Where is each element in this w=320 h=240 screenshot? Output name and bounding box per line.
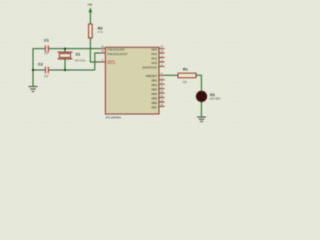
pins 6-13 RB stubs bbox=[159, 75, 165, 106]
wire R1 to LED anode bbox=[196, 75, 201, 91]
pin numbers 17,18,1,2,3 bbox=[160, 46, 163, 67]
svg-text:R2: R2 bbox=[98, 25, 103, 30]
pin label MCLR with overbar bbox=[107, 61, 115, 65]
svg-text:D1: D1 bbox=[210, 92, 216, 97]
wire crystal bottom pin bbox=[63, 59, 67, 70]
svg-text:OSC2/CLKOUT: OSC2/CLKOUT bbox=[107, 52, 127, 56]
svg-text:RB1: RB1 bbox=[151, 79, 157, 83]
svg-text:PIC16F84A: PIC16F84A bbox=[106, 116, 122, 120]
capacitor C1 bbox=[45, 45, 48, 52]
junction node crystal top on OSC1 rail bbox=[64, 48, 66, 50]
svg-text:CRYSTAL: CRYSTAL bbox=[75, 60, 87, 63]
pin 15 OSC2 stub bbox=[100, 51, 106, 55]
ground right bbox=[197, 117, 206, 122]
svg-text:RA2: RA2 bbox=[151, 56, 157, 60]
svg-text:OSC1/CLKIN: OSC1/CLKIN bbox=[107, 47, 124, 51]
svg-text:C1: C1 bbox=[44, 38, 50, 43]
LED D1 bbox=[196, 91, 207, 102]
svg-text:LED-RED: LED-RED bbox=[210, 97, 221, 100]
capacitor C2 bbox=[45, 67, 48, 74]
pin labels RA0-RA4/T0CKI bbox=[143, 47, 158, 69]
pin 4 MCLR stub bbox=[100, 60, 106, 64]
junction node left rail to ground bbox=[32, 69, 34, 71]
svg-text:R1: R1 bbox=[183, 68, 188, 72]
svg-text:RA1: RA1 bbox=[151, 52, 157, 56]
svg-text:RA3: RA3 bbox=[151, 61, 157, 65]
pin labels RB0/INT-RB7 bbox=[146, 74, 157, 109]
ground left bbox=[29, 87, 38, 92]
power +5v arrow symbol bbox=[89, 8, 92, 12]
wire left vertical to ground bbox=[31, 70, 35, 86]
svg-text:RB7: RB7 bbox=[151, 105, 157, 109]
resistor R2 bbox=[89, 24, 93, 38]
wire R2 bottom to MCLR pin bbox=[90, 38, 100, 62]
wire crystal top pin bbox=[63, 49, 67, 53]
wire OSC1 top rail left segment with corner bbox=[33, 49, 45, 70]
svg-text:RB3: RB3 bbox=[151, 88, 157, 92]
wire LED cathode to ground bbox=[199, 102, 203, 117]
crystal X1 bbox=[58, 52, 73, 59]
svg-text:RB0/INT: RB0/INT bbox=[146, 74, 157, 78]
svg-text:RB2: RB2 bbox=[151, 83, 157, 87]
wire bottom rail right segment bbox=[49, 68, 95, 72]
wire bottom rail left segment bbox=[33, 68, 45, 72]
pins 17,18,1,2,3 RA stubs bbox=[159, 49, 165, 67]
pin numbers 6-13 bbox=[160, 72, 163, 106]
pin 16 OSC1 stub bbox=[100, 47, 106, 51]
wire RB0 pin 6 to R1 bbox=[165, 73, 178, 77]
chip U1 PIC16F84A body bbox=[105, 47, 159, 114]
resistor R1 bbox=[178, 73, 196, 78]
wire +5v arrow to R2 top bbox=[88, 12, 92, 24]
svg-text:+5v: +5v bbox=[87, 3, 92, 7]
svg-text:RB4: RB4 bbox=[151, 92, 157, 96]
svg-text:RA0: RA0 bbox=[151, 47, 157, 51]
svg-text:RA4/T0CKI: RA4/T0CKI bbox=[143, 65, 158, 69]
wire OSC2 riser to pin 15 bbox=[95, 53, 100, 70]
wire OSC1 top rail to pin 16 bbox=[49, 47, 101, 51]
svg-text:RB5: RB5 bbox=[151, 96, 157, 100]
svg-text:C2: C2 bbox=[38, 62, 43, 67]
junction node crystal bottom on bottom rail bbox=[64, 69, 66, 71]
svg-text:RB6: RB6 bbox=[151, 101, 157, 105]
